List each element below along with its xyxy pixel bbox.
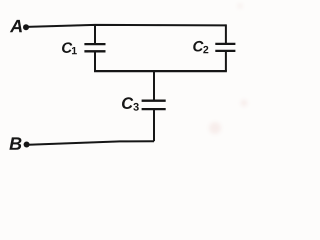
capacitor C1 bottom plate — [84, 50, 105, 52]
wire: C3 top stub from middle rail — [153, 71, 155, 101]
wire: top rail from node A to C2 corner — [27, 25, 226, 27]
capacitor C2 bottom plate — [215, 50, 235, 52]
capacitor C2 label subscript 2 — [203, 46, 208, 53]
capacitor C2 label C — [193, 41, 203, 52]
capacitor C3 top plate — [142, 100, 166, 102]
wire: C2 top stub — [225, 24, 227, 44]
node B terminal dot — [24, 142, 30, 148]
capacitor C1 top plate — [84, 43, 105, 45]
capacitor C3 label C — [122, 97, 133, 109]
wire: C2 bottom stub — [225, 51, 227, 71]
wire: middle rail joining C1 and C2 bottoms — [94, 70, 227, 72]
wire: C3 bottom stub — [153, 109, 155, 141]
node A label — [10, 20, 22, 32]
scan speckle — [209, 122, 221, 134]
scan speckle — [238, 4, 243, 9]
scan speckle — [241, 100, 248, 107]
wire: bottom rail from C3 to node B — [29, 141, 155, 144]
node B label — [9, 137, 21, 149]
capacitor C3 bottom plate — [142, 108, 166, 110]
wire: C1 bottom stub — [94, 51, 96, 71]
wire: C1 top stub — [94, 25, 96, 44]
capacitor C1 label C — [62, 42, 72, 53]
capacitor C3 label subscript 3 — [133, 103, 138, 111]
capacitor C2 top plate — [215, 43, 235, 45]
node A terminal dot — [23, 24, 29, 30]
paper background — [0, 0, 256, 158]
capacitor C1 label subscript 1 — [72, 47, 77, 54]
